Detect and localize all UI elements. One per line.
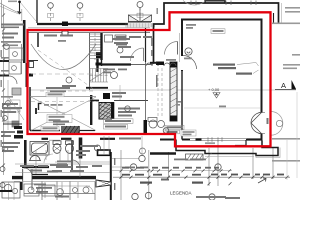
mid-bottom walls/arc near x72 xyxy=(72,160,80,168)
left margin mini-rooms xyxy=(0,48,23,127)
masonry tick band under window xyxy=(126,23,155,27)
window bowtie top xyxy=(128,8,152,23)
bottom dimension verticals xyxy=(120,150,122,200)
second bottom dimension line xyxy=(147,182,231,185)
window ticks on top bay xyxy=(191,1,256,6)
boxed label on room top wall xyxy=(211,29,225,34)
exterior swing arc right of red xyxy=(271,112,283,136)
room 1 interior: arc + dashed diagonals xyxy=(30,44,96,131)
top bay wall bump xyxy=(205,1,225,3)
WC room walls xyxy=(102,33,153,66)
texture bottom-left rooms y150-200 xyxy=(36,150,110,198)
left exterior wall pieces xyxy=(24,20,95,131)
funnel door symbol xyxy=(96,180,111,187)
room1 circled label xyxy=(66,77,72,83)
top grid leader lines xyxy=(50,8,52,23)
stair treads lower flight xyxy=(90,69,109,83)
kitchen door arc xyxy=(131,48,144,61)
nad wejsciem leader xyxy=(205,153,212,161)
bottom band extra text rows xyxy=(20,165,102,198)
bottom-left extra fixtures xyxy=(2,168,32,198)
left dimension chain ticks xyxy=(2,14,5,167)
section line A-A horizontal xyxy=(30,89,296,91)
top-left corner arcs and leader xyxy=(0,1,36,21)
big room right double door xyxy=(260,113,263,133)
big room rectangle xyxy=(182,20,262,141)
middle vertical wall + stairs xyxy=(90,33,98,90)
corridor text bars xyxy=(2,69,158,153)
right margin text bars xyxy=(272,7,300,162)
scalloped wardrobe top xyxy=(146,63,176,66)
left column extra text rows xyxy=(1,41,21,98)
dark hatched block above red bottom line xyxy=(61,126,80,133)
wardrobe room fixtures xyxy=(148,118,165,129)
dimension tick marks bottom xyxy=(120,176,289,179)
svg-text:A: A xyxy=(281,81,286,90)
extra texture: left margin dimension labels xyxy=(1,33,22,138)
top grid bubbles xyxy=(48,2,143,9)
bottom-left unit walls xyxy=(12,139,115,200)
section A marker right side xyxy=(275,80,296,90)
svg-text:+ 0,00: + 0,00 xyxy=(208,87,220,92)
step wall to top bay xyxy=(154,3,284,63)
furniture room below-left xyxy=(39,103,42,110)
bottom-left lower fixtures xyxy=(24,181,95,200)
svg-text:LEGENDA: LEGENDA xyxy=(170,191,192,196)
stair treads upper flight xyxy=(89,33,101,60)
bottom-mid circles xyxy=(130,155,221,200)
dimension number bars bottom xyxy=(122,174,284,184)
section A marker bottom xyxy=(258,178,266,183)
window sill ticks bottom wall xyxy=(208,137,222,141)
left margin dimension chain xyxy=(3,5,5,175)
bottom dimension line xyxy=(113,176,290,178)
boxed labels above red step xyxy=(165,125,184,134)
hall wall stub xyxy=(156,62,164,66)
left margin circles xyxy=(0,44,9,188)
door jambs right wall xyxy=(259,113,266,134)
big room interior marks xyxy=(186,24,196,29)
column on top wall xyxy=(62,22,68,27)
bottom-right stepped contour xyxy=(150,140,280,158)
bathroom fixtures bottom-left xyxy=(29,141,101,163)
wall left of chimney xyxy=(90,95,92,125)
lower-left extra walls xyxy=(20,182,22,190)
hatched sill strip xyxy=(186,154,204,160)
scattered tiny text bars xyxy=(1,24,269,200)
chimney hatched block xyxy=(99,102,114,119)
wardrobe room hatched wall xyxy=(170,62,177,121)
big room left door gap + arc xyxy=(181,56,184,70)
top-left exterior wall xyxy=(28,0,151,32)
left margin lower black steps xyxy=(14,126,23,139)
terrace arc top xyxy=(183,1,205,6)
entrance hall door arc xyxy=(165,33,180,62)
